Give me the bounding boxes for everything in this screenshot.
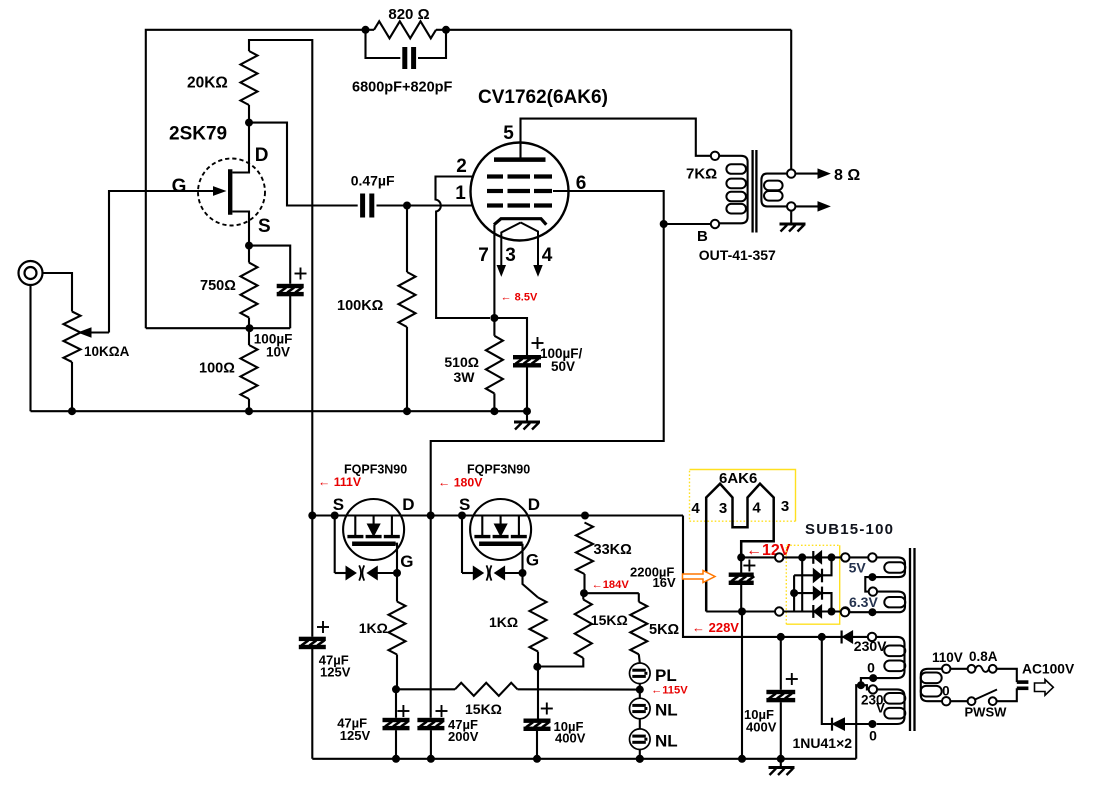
svg-text:1KΩ: 1KΩ bbox=[359, 620, 388, 636]
svg-text:←115V: ←115V bbox=[651, 685, 688, 697]
diode 1NU41 first bbox=[818, 633, 826, 641]
primary winding bbox=[719, 156, 747, 224]
tube cathode bbox=[494, 219, 546, 225]
wire 228V line bbox=[585, 514, 683, 516]
svg-text:10KΩA: 10KΩA bbox=[84, 344, 130, 359]
bridge diode D3 row bbox=[794, 593, 831, 611]
svg-text:← 228V: ← 228V bbox=[692, 620, 739, 635]
svg-text:6: 6 bbox=[576, 173, 587, 194]
svg-text:400V: 400V bbox=[555, 731, 586, 746]
svg-text:2SK79: 2SK79 bbox=[169, 124, 227, 145]
svg-text:7KΩ: 7KΩ bbox=[686, 166, 717, 183]
capacitor 10uF 400V second bbox=[777, 633, 785, 641]
svg-text:50V: 50V bbox=[551, 359, 575, 374]
wire plate pin5 bbox=[521, 119, 711, 160]
capacitor 0.47uF bbox=[360, 194, 365, 218]
svg-text:← 111V: ← 111V bbox=[318, 475, 362, 489]
svg-text:200V: 200V bbox=[448, 729, 479, 744]
tube grids bbox=[487, 174, 503, 178]
resistor 100Ohm bbox=[248, 328, 250, 345]
wire pot bottom bbox=[71, 362, 73, 411]
svg-text:510Ω: 510Ω bbox=[444, 354, 479, 370]
svg-text:FQPF3N90: FQPF3N90 bbox=[467, 463, 530, 477]
svg-text:8 Ω: 8 Ω bbox=[834, 167, 860, 184]
bridge top rail diode D1 bbox=[783, 556, 841, 558]
mosfet internals bbox=[481, 516, 483, 537]
bridge vertical a bbox=[801, 557, 803, 611]
svg-text:5KΩ: 5KΩ bbox=[649, 622, 680, 638]
NFB left vertical wire bbox=[146, 30, 366, 328]
svg-text:6AK6: 6AK6 bbox=[719, 470, 757, 487]
mosfet internals bbox=[354, 516, 356, 537]
resistor 820Ohm bbox=[366, 29, 375, 31]
svg-text:AC100V: AC100V bbox=[1022, 662, 1075, 677]
heater 12V rail bbox=[737, 553, 745, 561]
output ground arrow bbox=[795, 205, 818, 207]
svg-text:0.8A: 0.8A bbox=[969, 649, 998, 664]
heater minus rail bbox=[738, 608, 746, 616]
gate protection diodes Q3 bbox=[461, 516, 463, 574]
orange pointer arrow bbox=[683, 571, 716, 583]
AC100V plug bbox=[997, 669, 1017, 682]
resistor 20KOhm bbox=[241, 51, 258, 105]
transformer core bbox=[751, 150, 753, 233]
230V winding second bbox=[877, 689, 905, 724]
resistor 100KOhm bbox=[406, 206, 408, 273]
svg-text:4: 4 bbox=[542, 245, 553, 266]
tube plate bbox=[494, 157, 546, 162]
capacitor 47uF 200V bbox=[430, 516, 432, 718]
svg-text:3: 3 bbox=[781, 498, 789, 515]
svg-text:OUT-41-357: OUT-41-357 bbox=[699, 247, 776, 263]
svg-text:400V: 400V bbox=[746, 720, 777, 735]
svg-text:4: 4 bbox=[752, 500, 761, 517]
svg-text:G: G bbox=[172, 176, 187, 197]
svg-text:4: 4 bbox=[691, 500, 700, 517]
bridge vertical c bbox=[793, 575, 795, 611]
neon lamp NL1 bbox=[639, 690, 641, 699]
svg-text:15KΩ: 15KΩ bbox=[465, 701, 502, 717]
svg-text:B: B bbox=[697, 228, 708, 245]
svg-text:100Ω: 100Ω bbox=[199, 361, 235, 377]
ground symbol main bbox=[526, 411, 528, 421]
wire pin6 screen bbox=[553, 191, 664, 224]
svg-text:S: S bbox=[258, 216, 271, 237]
svg-text:← 8.5V: ← 8.5V bbox=[501, 292, 538, 304]
svg-text:S: S bbox=[459, 495, 470, 514]
svg-text:20KΩ: 20KΩ bbox=[187, 75, 228, 92]
capacitor 47uF 125V first bbox=[311, 516, 313, 637]
node grid junction bbox=[403, 202, 411, 210]
svg-text:3W: 3W bbox=[454, 369, 476, 385]
svg-text:NL: NL bbox=[655, 732, 678, 751]
resistor 15KOhm middle bbox=[582, 593, 584, 599]
ground symbol PSU bbox=[780, 759, 782, 768]
capacitor 2200uF 16V bbox=[740, 557, 742, 572]
svg-text:2: 2 bbox=[456, 156, 467, 177]
svg-text:100KΩ: 100KΩ bbox=[337, 298, 384, 314]
svg-text:PWSW: PWSW bbox=[965, 705, 1008, 720]
230V winding first bbox=[868, 633, 876, 641]
JFET 2SK79 Q1 bbox=[198, 159, 265, 226]
svg-text:0.47µF: 0.47µF bbox=[351, 173, 395, 189]
svg-text:0: 0 bbox=[867, 660, 875, 676]
wire wiper to gate bbox=[109, 191, 215, 333]
svg-text:6.3V: 6.3V bbox=[849, 594, 878, 610]
svg-text:16V: 16V bbox=[653, 575, 676, 590]
AC outline arrow bbox=[1035, 680, 1054, 696]
node NFB junction bbox=[246, 324, 254, 332]
resistor 510Ohm 3W bbox=[493, 318, 495, 336]
ground bus bbox=[31, 410, 528, 412]
bridge terminals bbox=[775, 553, 783, 561]
mosfet circle bbox=[343, 499, 404, 560]
fuse 0.8A bbox=[950, 668, 967, 670]
svg-text:230V: 230V bbox=[854, 638, 887, 654]
transformer core bbox=[909, 548, 911, 731]
wire B+ to output transformer bbox=[431, 224, 664, 516]
capacitor 47uF 125V second bbox=[395, 689, 397, 718]
neon lamp NL2 bbox=[639, 719, 641, 729]
5V winding bbox=[850, 556, 869, 558]
svg-text:0: 0 bbox=[869, 728, 877, 744]
svg-text:1: 1 bbox=[455, 183, 466, 204]
svg-text:6800pF+820pF: 6800pF+820pF bbox=[352, 80, 452, 96]
capacitor 100uF 50V bbox=[494, 318, 527, 355]
wire jack ground bbox=[29, 285, 31, 412]
svg-text:7: 7 bbox=[478, 245, 489, 266]
svg-text:3: 3 bbox=[719, 500, 727, 517]
svg-text:PL: PL bbox=[655, 666, 677, 685]
svg-text:110V: 110V bbox=[932, 650, 963, 665]
resistor 750Ohm bbox=[248, 246, 250, 263]
5V to 6.3V series link bbox=[865, 577, 872, 592]
svg-text:← 180V: ← 180V bbox=[438, 476, 483, 490]
gate protection diodes Q2 bbox=[334, 516, 336, 574]
resistor 1KOhm Q3 gate bbox=[523, 573, 539, 598]
svg-text:125V: 125V bbox=[320, 665, 351, 680]
svg-text:1NU41×2: 1NU41×2 bbox=[793, 735, 853, 751]
node S junction bbox=[245, 242, 253, 250]
svg-text:NL: NL bbox=[655, 701, 678, 720]
svg-text:125V: 125V bbox=[340, 728, 371, 743]
pilot lamp PL bbox=[639, 654, 640, 663]
svg-text:33KΩ: 33KΩ bbox=[594, 542, 633, 558]
wire jack to pot bbox=[42, 273, 72, 312]
capacitor 100uF 10V bbox=[249, 246, 290, 284]
mosfet circle bbox=[470, 499, 531, 560]
bottom ground bus bbox=[312, 758, 856, 760]
svg-text:10V: 10V bbox=[266, 345, 290, 360]
bridge bottom rail diode D4 bbox=[783, 610, 841, 612]
svg-text:D: D bbox=[402, 495, 414, 514]
svg-text:0: 0 bbox=[942, 684, 950, 699]
heater pins bbox=[706, 484, 774, 612]
svg-text:S: S bbox=[333, 495, 344, 514]
output ground symbol bbox=[790, 211, 792, 223]
svg-text:V: V bbox=[876, 701, 885, 716]
svg-text:15KΩ: 15KΩ bbox=[591, 612, 628, 628]
svg-text:3: 3 bbox=[505, 245, 516, 266]
input RCA jack bbox=[19, 261, 43, 285]
bridge diode D2 row bbox=[794, 557, 831, 575]
rail 180V horizontal bbox=[312, 514, 683, 516]
capacitor 10uF 400V first bbox=[537, 667, 539, 719]
tube heater pins 3 4 bbox=[501, 223, 520, 268]
resistor 5KOhm bbox=[584, 592, 639, 594]
svg-text:G: G bbox=[400, 552, 413, 571]
svg-text:CV1762(6AK6): CV1762(6AK6) bbox=[478, 87, 608, 108]
svg-text:D: D bbox=[528, 495, 540, 514]
power switch PWSW bbox=[950, 700, 967, 702]
diode 1NU41 second bbox=[822, 637, 832, 724]
svg-text:820 Ω: 820 Ω bbox=[388, 6, 429, 23]
svg-text:5V: 5V bbox=[849, 560, 867, 576]
resistor 15KOhm horizontal bbox=[396, 688, 455, 690]
secondary winding bbox=[761, 174, 791, 207]
wire pin7 cathode down bbox=[493, 225, 495, 318]
rectifier bridge yellow box bbox=[786, 545, 839, 624]
svg-text:G: G bbox=[526, 551, 539, 570]
NFB wire from secondary bbox=[790, 30, 792, 170]
bus right end to center tap bbox=[856, 685, 861, 759]
capacitor 6800pF+820pF bbox=[366, 30, 401, 58]
wire 20K top to 111V rail bbox=[249, 40, 312, 516]
6.3V winding bbox=[849, 592, 905, 613]
svg-text:D: D bbox=[255, 145, 269, 166]
potentiometer 10KOhmA bbox=[64, 312, 81, 363]
node D junction bbox=[245, 119, 253, 127]
svg-text:←184V: ←184V bbox=[592, 579, 630, 591]
svg-text:5: 5 bbox=[503, 123, 514, 144]
svg-text:1KΩ: 1KΩ bbox=[489, 614, 518, 630]
svg-text:SUB15-100: SUB15-100 bbox=[805, 521, 894, 538]
wire drain to coupling cap bbox=[249, 123, 358, 206]
primary winding 110V bbox=[942, 665, 950, 673]
heater block 6AK6 yellow box bbox=[690, 470, 796, 522]
resistor 1KOhm Q2 gate bbox=[396, 573, 398, 602]
wire pin2 to cathode with hop bbox=[436, 177, 491, 319]
output transformer OUT-41-357 bbox=[711, 152, 719, 160]
NFB node wire bbox=[146, 327, 290, 329]
resistor 33KOhm bbox=[576, 523, 593, 575]
svg-text:750Ω: 750Ω bbox=[200, 278, 236, 294]
output 8ohm arrow bbox=[795, 173, 818, 175]
